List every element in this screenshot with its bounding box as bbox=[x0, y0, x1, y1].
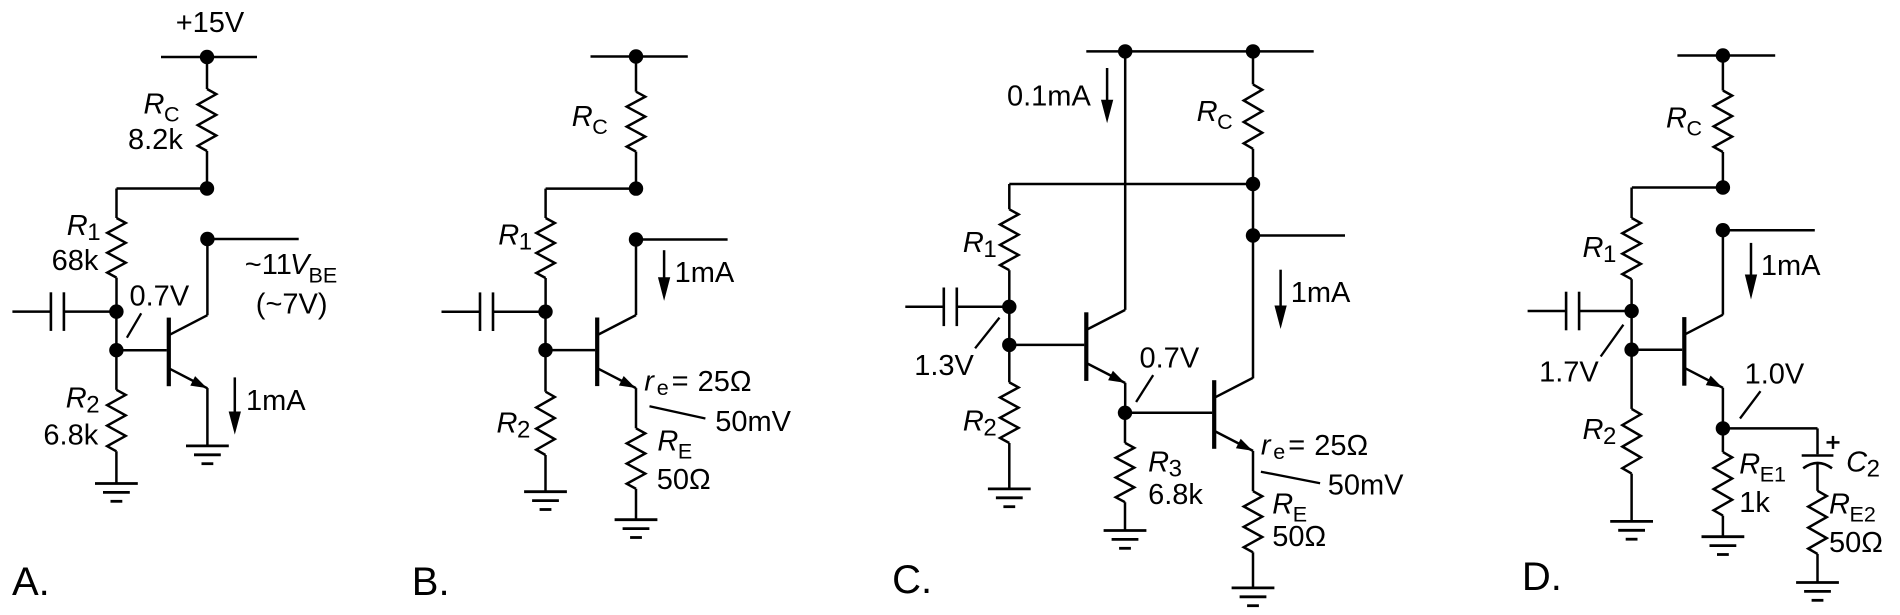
svg-text:1: 1 bbox=[519, 229, 532, 256]
resistor R3 (C) bbox=[1116, 443, 1135, 502]
wire R2 to ground (A) bbox=[115, 451, 118, 483]
resistor R2 (D) bbox=[1622, 409, 1641, 474]
pointer line 50mV (B) bbox=[650, 406, 706, 418]
resistor R2 (A) bbox=[107, 390, 126, 452]
label R2 (B) bbox=[497, 408, 531, 444]
node: input cap junction (D) bbox=[1624, 304, 1638, 318]
svg-text:1k: 1k bbox=[1739, 487, 1770, 519]
node: base junction (B) bbox=[538, 343, 552, 357]
svg-text:25Ω: 25Ω bbox=[698, 366, 752, 398]
node: input cap junction (B) bbox=[538, 305, 552, 319]
svg-text:+15V: +15V bbox=[176, 7, 245, 39]
wire RE1 to ground (D) bbox=[1722, 516, 1725, 537]
wire rail to RC (B) bbox=[635, 57, 638, 92]
label R1 (B) bbox=[498, 220, 532, 256]
1mA current arrow (D) bbox=[1745, 243, 1757, 300]
svg-text:1.3V: 1.3V bbox=[914, 350, 974, 382]
svg-text:2: 2 bbox=[86, 392, 99, 419]
node: output junction (D) bbox=[1716, 223, 1730, 237]
ground: R3 (C) bbox=[1104, 531, 1147, 549]
resistor R1 (C) bbox=[1000, 209, 1019, 270]
svg-text:25Ω: 25Ω bbox=[1314, 430, 1368, 462]
svg-text:D.: D. bbox=[1522, 555, 1562, 599]
wire R3 top (C) bbox=[1124, 413, 1127, 443]
svg-text:r: r bbox=[1261, 430, 1272, 462]
svg-text:=: = bbox=[672, 366, 689, 398]
pointer line 0.7V (C) bbox=[1136, 375, 1153, 402]
wire base node to R2 (A) bbox=[115, 350, 118, 390]
wire output node to Q2 collector (C) bbox=[1252, 236, 1255, 379]
pointer line 1.0V (D) bbox=[1740, 391, 1761, 418]
wire RE2 to ground (D) bbox=[1816, 554, 1819, 583]
svg-text:R: R bbox=[1583, 414, 1604, 446]
svg-text:C: C bbox=[1687, 117, 1703, 141]
label re = 25 ohm (B) bbox=[644, 366, 751, 401]
capacitor: input coupling (D) bbox=[1528, 292, 1632, 331]
svg-text:R: R bbox=[1148, 447, 1169, 479]
svg-text:1mA: 1mA bbox=[1291, 277, 1351, 309]
wire emitter down (B) bbox=[635, 388, 638, 428]
svg-text:68k: 68k bbox=[52, 245, 99, 277]
resistor R1 (B) bbox=[536, 218, 555, 278]
svg-text:R: R bbox=[66, 383, 87, 415]
wire collector up (D) bbox=[1722, 230, 1725, 315]
wire collector up (B) bbox=[635, 240, 638, 316]
node: collector feed junction (A) bbox=[200, 181, 214, 195]
svg-text:1: 1 bbox=[87, 219, 100, 246]
svg-text:50mV: 50mV bbox=[715, 406, 791, 438]
svg-text:R: R bbox=[1583, 232, 1604, 264]
svg-text:R: R bbox=[497, 408, 518, 440]
svg-text:1: 1 bbox=[983, 236, 996, 263]
svg-text:1mA: 1mA bbox=[246, 385, 306, 417]
svg-text:R: R bbox=[572, 101, 593, 133]
1mA current arrow (B) bbox=[658, 250, 670, 301]
wire RC to junction (C) bbox=[1252, 149, 1255, 184]
wire R1 top bbox=[115, 189, 118, 219]
label RC (A) bbox=[144, 89, 180, 127]
wire Q1 emitter down (C) bbox=[1124, 383, 1127, 413]
wire rail to RC (C) bbox=[1252, 51, 1255, 84]
ground: RE1 (D) bbox=[1702, 537, 1745, 555]
wire R1 top (D) bbox=[1630, 188, 1633, 219]
node: rail junction (B) bbox=[629, 49, 643, 63]
node: rail junction Q1 (C) bbox=[1118, 44, 1132, 58]
svg-text:8.2k: 8.2k bbox=[128, 124, 183, 156]
node: collector feed junction (C) bbox=[1246, 177, 1260, 191]
wire base (B) bbox=[546, 349, 596, 352]
0.1mA current arrow (C) bbox=[1101, 68, 1113, 123]
resistor RC (A) bbox=[198, 89, 217, 151]
svg-text:R: R bbox=[67, 210, 88, 242]
resistor R1 (D) bbox=[1622, 218, 1641, 279]
wire RE1 top (D) bbox=[1722, 428, 1725, 452]
svg-text:1: 1 bbox=[1603, 241, 1616, 268]
ground: RE (B) bbox=[615, 520, 658, 538]
wire output (C) bbox=[1253, 234, 1345, 237]
wire junction to R1 top bbox=[117, 187, 208, 190]
ground: R2 (B) bbox=[524, 492, 567, 510]
svg-text:R: R bbox=[657, 426, 678, 458]
wire R2 to ground (C) bbox=[1008, 443, 1011, 489]
node: input cap junction (C) bbox=[1002, 300, 1016, 314]
svg-text:~11: ~11 bbox=[245, 249, 292, 281]
wire output (D) bbox=[1723, 229, 1815, 232]
svg-text:B.: B. bbox=[412, 560, 450, 604]
svg-text:R: R bbox=[1739, 449, 1760, 481]
label R3 (C) bbox=[1148, 447, 1182, 483]
node: rail junction RC (C) bbox=[1246, 44, 1260, 58]
node: base junction (D) bbox=[1624, 343, 1638, 357]
capacitor C2 polarized (D) bbox=[1802, 456, 1834, 469]
svg-text:6.8k: 6.8k bbox=[43, 420, 98, 452]
wire R1 top (B) bbox=[544, 189, 547, 218]
svg-text:1mA: 1mA bbox=[675, 257, 735, 289]
label R1 (C) bbox=[963, 227, 997, 263]
label RE (C) bbox=[1272, 489, 1307, 527]
svg-text:2: 2 bbox=[1867, 456, 1880, 483]
svg-text:C: C bbox=[1217, 110, 1233, 134]
label R2 (A) bbox=[66, 383, 100, 419]
transistor Q1 (A) bbox=[167, 315, 208, 388]
node: emitter junction (D) bbox=[1716, 421, 1730, 435]
svg-text:e: e bbox=[657, 376, 669, 400]
resistor R2 (C) bbox=[1000, 382, 1019, 443]
svg-text:50Ω: 50Ω bbox=[1272, 521, 1326, 553]
node: base junction (C) bbox=[1002, 338, 1016, 352]
svg-text:50Ω: 50Ω bbox=[657, 464, 711, 496]
svg-text:E: E bbox=[678, 440, 692, 464]
ground: RE (C) bbox=[1232, 588, 1275, 606]
wire R2 to ground (B) bbox=[544, 455, 547, 492]
ground: RE2 (D) bbox=[1796, 583, 1839, 601]
resistor RC (C) bbox=[1244, 84, 1263, 148]
wire R2 to ground (D) bbox=[1630, 474, 1633, 522]
label RC (D) bbox=[1666, 103, 1702, 141]
wire RE to ground (C) bbox=[1252, 552, 1255, 588]
svg-text:R: R bbox=[498, 220, 519, 252]
svg-text:E2: E2 bbox=[1850, 503, 1876, 527]
wire R1 bottom to input node bbox=[115, 278, 118, 312]
wire emitter to ground (A) bbox=[206, 388, 209, 446]
wire down to C2 (D) bbox=[1816, 428, 1819, 454]
pointer line 1.7V (D) bbox=[1601, 325, 1624, 357]
svg-text:6.8k: 6.8k bbox=[1148, 479, 1203, 511]
svg-text:R: R bbox=[144, 89, 165, 121]
resistor R2 (B) bbox=[536, 392, 555, 455]
label R1 (A) bbox=[67, 210, 101, 246]
wire base (A) bbox=[116, 349, 166, 352]
wire RE to ground (B) bbox=[635, 489, 638, 520]
wire R1 top (C) bbox=[1008, 184, 1011, 209]
node: +15V rail junction bbox=[200, 50, 214, 64]
wire emitter node to C2 branch (D) bbox=[1723, 427, 1818, 430]
wire base Q2 (C) bbox=[1125, 412, 1212, 415]
svg-text:R: R bbox=[963, 227, 984, 259]
svg-text:0.7V: 0.7V bbox=[130, 281, 190, 313]
svg-text:R: R bbox=[963, 405, 984, 437]
wire input to base node (C) bbox=[1008, 307, 1011, 345]
svg-text:0.1mA: 0.1mA bbox=[1007, 81, 1091, 113]
transistor Q1 (D) bbox=[1682, 315, 1723, 388]
node: output junction (A) bbox=[200, 232, 214, 246]
label R2 (C) bbox=[963, 405, 997, 441]
node: output junction (C) bbox=[1246, 228, 1260, 242]
svg-text:=: = bbox=[1288, 430, 1305, 462]
wire collector up (A) bbox=[206, 239, 209, 315]
1mA current arrow (C) bbox=[1274, 270, 1286, 329]
resistor RE2 (D) bbox=[1808, 491, 1827, 554]
wire output (B) bbox=[636, 238, 728, 241]
svg-text:A.: A. bbox=[12, 560, 50, 604]
wire base node to R2 (C) bbox=[1008, 345, 1011, 383]
svg-text:50mV: 50mV bbox=[1328, 470, 1404, 502]
pointer line 0.7V bbox=[127, 313, 141, 337]
supply rail wire (B) bbox=[591, 55, 688, 58]
capacitor: input coupling (C) bbox=[905, 288, 1009, 327]
svg-text:50Ω: 50Ω bbox=[1829, 527, 1883, 559]
supply rail wire (D) bbox=[1677, 54, 1775, 57]
wire junction to R1 (D) bbox=[1632, 186, 1723, 189]
svg-text:C: C bbox=[1846, 447, 1868, 479]
wire output (A) bbox=[207, 238, 298, 241]
svg-text:2: 2 bbox=[517, 417, 530, 444]
node: collector feed junction (B) bbox=[629, 181, 643, 195]
wire input to base node (D) bbox=[1630, 311, 1633, 350]
ground: emitter (A) bbox=[186, 446, 229, 464]
label RE1 (D) bbox=[1739, 449, 1786, 487]
resistor RE1 (D) bbox=[1714, 452, 1733, 515]
wire RC to collector node bbox=[206, 151, 209, 189]
resistor RE (B) bbox=[627, 428, 646, 489]
supply rail wire (C) bbox=[1086, 50, 1313, 53]
wire junction to output node (C) bbox=[1252, 184, 1255, 236]
+15V rail wire bbox=[161, 56, 257, 59]
ground: R2 (C) bbox=[988, 489, 1031, 507]
wire input node to base node bbox=[115, 312, 118, 351]
svg-text:2: 2 bbox=[983, 414, 996, 441]
wire rail to RC (D) bbox=[1722, 56, 1725, 91]
svg-text:(~7V): (~7V) bbox=[256, 289, 328, 321]
svg-text:C: C bbox=[592, 115, 608, 139]
ground: R2 (D) bbox=[1610, 521, 1653, 539]
svg-text:1.7V: 1.7V bbox=[1539, 357, 1599, 389]
transistor Q1 (B) bbox=[595, 315, 636, 388]
wire R3 to ground (C) bbox=[1124, 502, 1127, 530]
resistor RC (B) bbox=[627, 92, 646, 152]
svg-text:R: R bbox=[1197, 96, 1218, 128]
svg-text:BE: BE bbox=[309, 263, 338, 287]
svg-text:1mA: 1mA bbox=[1761, 250, 1821, 282]
ground: R2 (A) bbox=[95, 484, 138, 502]
label RE2 (D) bbox=[1829, 489, 1876, 527]
wire emitter down (D) bbox=[1722, 388, 1725, 429]
svg-text:e: e bbox=[1273, 440, 1285, 464]
svg-text:0.7V: 0.7V bbox=[1140, 343, 1200, 375]
resistor R1 (A) bbox=[107, 218, 126, 278]
label RE (B) bbox=[657, 426, 692, 464]
svg-text:1.0V: 1.0V bbox=[1745, 358, 1805, 390]
label C2 (D) bbox=[1846, 447, 1880, 483]
transistor Q1 (C) bbox=[1084, 310, 1125, 383]
capacitor: input coupling (A) bbox=[12, 292, 116, 331]
wire Q2 emitter down (C) bbox=[1252, 451, 1255, 491]
wire Q1 collector to rail (C) bbox=[1124, 51, 1127, 310]
label ~11VBE bbox=[245, 249, 337, 288]
svg-text:C: C bbox=[164, 103, 180, 127]
label RC (C) bbox=[1197, 96, 1233, 134]
node: output junction (B) bbox=[629, 232, 643, 246]
svg-text:r: r bbox=[644, 366, 655, 398]
label RC (B) bbox=[572, 101, 608, 139]
1mA current arrow (A) bbox=[229, 377, 241, 434]
label R2 (D) bbox=[1583, 414, 1617, 450]
node: input cap junction (A) bbox=[109, 304, 123, 318]
svg-text:R: R bbox=[1666, 103, 1687, 135]
label re = 25 ohm (C) bbox=[1261, 430, 1368, 465]
capacitor: input coupling (B) bbox=[442, 292, 546, 331]
node: rail junction (D) bbox=[1716, 48, 1730, 62]
wire R1 to input node (B) bbox=[544, 278, 547, 312]
pointer line 50mV (C) bbox=[1261, 472, 1320, 484]
wire R1 to input node (C) bbox=[1008, 270, 1011, 307]
wire junction to R1 (B) bbox=[546, 187, 636, 190]
transistor Q2 (C) bbox=[1212, 378, 1253, 451]
wire base (D) bbox=[1632, 348, 1683, 351]
wire rail to RC bbox=[206, 57, 209, 89]
node: Q1 emitter junction (C) bbox=[1118, 406, 1132, 420]
svg-text:C.: C. bbox=[892, 558, 932, 602]
wire C2 to RE2 (D) bbox=[1816, 464, 1819, 491]
svg-text:E1: E1 bbox=[1760, 463, 1786, 487]
wire RC to junction (B) bbox=[635, 152, 638, 189]
resistor RC (D) bbox=[1714, 91, 1733, 153]
plus sign C2 (D) bbox=[1827, 436, 1840, 449]
label R1 (D) bbox=[1583, 232, 1617, 268]
wire junction to R1 (C) bbox=[1009, 183, 1253, 186]
wire input to base node (B) bbox=[544, 312, 547, 350]
svg-text:R: R bbox=[1272, 489, 1293, 521]
node: collector feed junction (D) bbox=[1716, 180, 1730, 194]
node: base junction (A) bbox=[109, 343, 123, 357]
pointer line 1.3V (C) bbox=[975, 318, 999, 349]
svg-text:2: 2 bbox=[1603, 423, 1616, 450]
resistor RE (C) bbox=[1244, 491, 1263, 552]
wire RC to junction (D) bbox=[1722, 152, 1725, 188]
wire base node to R2 (B) bbox=[544, 350, 547, 392]
wire base Q1 (C) bbox=[1009, 344, 1084, 347]
svg-text:R: R bbox=[1829, 489, 1850, 521]
wire base node to R2 (D) bbox=[1630, 350, 1633, 409]
wire R1 to input node (D) bbox=[1630, 279, 1633, 311]
